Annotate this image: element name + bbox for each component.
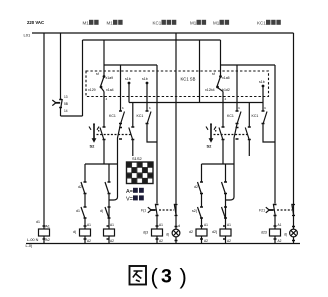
contact S2b ticks [131,127,134,140]
svg-text:4: 4 [106,97,108,101]
selector link dashed left [97,134,133,136]
svg-text:s1b: s1b [259,80,265,84]
terminal box X1 dashed [86,71,269,97]
svg-text:S2: S2 [207,144,213,149]
contact X1 labels [88,72,114,92]
svg-text:s2(: s2( [192,209,198,213]
svg-text:A1: A1 [278,223,282,227]
contact KC2-1 [226,65,241,200]
svg-text:L-00 N: L-00 N [27,238,39,242]
lamp pin ticks [175,227,296,241]
svg-text:A2: A2 [159,239,163,243]
svg-text:5B: 5B [64,102,68,106]
svg-text:KC1: KC1 [109,114,116,118]
svg-text:d1: d1 [76,209,80,213]
svg-text:d2(: d2( [212,230,218,234]
svg-text:d2: d2 [189,230,193,234]
contact KM4-b col224 [222,207,226,219]
svg-text:M1: M1 [190,21,197,26]
pushbutton SB3 NO [148,204,157,216]
wire bottom bus [26,243,300,245]
wire rail A top [32,32,294,34]
svg-text:KC1: KC1 [227,114,234,118]
svg-text:L-0): L-0) [26,244,33,248]
svg-text:220 VAC: 220 VAC [27,20,44,25]
selector S2 left arrow [89,123,99,143]
coil pin ticks [43,226,277,239]
wire coil KM3 to bus [201,236,203,244]
selector S2 right arrow [206,123,217,143]
wire col176 lamp [175,33,177,244]
contact HL2 ticks [292,204,295,216]
svg-text:b1d2: b1d2 [222,88,230,92]
top label M1 stop [83,20,99,26]
svg-text:13: 13 [64,95,68,99]
svg-text:A2: A2 [278,239,282,243]
wire col157 [156,65,158,244]
top label KC2 after [257,20,281,26]
svg-text:4: 4 [225,97,227,101]
contact X1 dots [100,75,106,88]
contact KA1-a col85 [81,182,85,207]
contact X1 in terminal box [101,77,105,128]
coil KM2 [104,229,115,236]
svg-text:F(1: F(1 [141,209,146,213]
contact X2 in terminal box [217,77,223,128]
contact X2 labels [205,72,230,92]
contact KA2-b ticks [200,207,203,218]
svg-text:A2: A2 [87,239,91,243]
svg-text:A1: A1 [227,223,231,227]
contact KM2-a ticks [108,182,111,194]
contact KM4-a ticks [224,182,227,194]
contact KA1-a ticks [84,182,87,194]
lamp HL1 [172,229,180,237]
svg-text:): ) [180,264,187,289]
svg-text:sf: sf [212,72,215,76]
contact KM4-b ticks [224,207,227,218]
svg-text:d: d [178,224,180,228]
link SB3 to lamp dashed [159,209,174,211]
wire col220 upper [220,40,222,76]
wire corner col104 to col85 [85,164,118,182]
coil KC1 [152,229,163,236]
svg-text:x129: x129 [88,88,96,92]
svg-text:sf: sf [96,72,99,76]
top label M1 run [107,20,123,26]
svg-text:b: b [265,106,267,110]
svg-text:d): d) [166,233,169,237]
svg-text:V=: V= [126,197,133,203]
wire col275 [274,65,276,244]
contact S2c ticks [222,127,225,140]
svg-text:A1: A1 [110,223,114,227]
pushbutton SB1 labels [64,95,68,113]
contact S2a ticks [103,127,106,140]
contact KM4-a col224 [222,182,226,194]
wire cross link y102 [129,102,263,104]
wire branch right y65 [221,64,276,66]
pushbutton SB1 NC [52,33,62,116]
contact KA1-b col85 [81,207,85,229]
svg-text:M1: M1 [83,21,90,26]
wire corner col220 to col201 [202,164,235,182]
contact X2 dots [216,75,222,88]
top label M2 run [213,20,229,26]
svg-text:d1: d1 [36,220,40,224]
contact S2d ticks [248,111,265,140]
svg-text:A2: A2 [110,239,114,243]
svg-text:M1: M1 [107,21,114,26]
coil pin labels [87,223,282,243]
svg-text:A1: A1 [159,223,163,227]
svg-text:x1a9: x1a9 [106,76,114,80]
svg-text:A1: A1 [87,223,91,227]
svg-text:d2: d2 [78,185,82,189]
contact KA2-a ticks [200,182,203,194]
contact S2a on col104 [100,128,104,165]
node X1 terminal dot a [128,82,131,85]
contact KM2-b ticks [108,207,111,218]
svg-text:(: ( [151,264,159,289]
svg-text:KC1: KC1 [153,21,162,26]
svg-text:d23: d23 [261,231,267,235]
svg-text:KC1: KC1 [257,21,266,26]
contact KC1-2 ticks [146,111,149,124]
wire dot b down [146,83,148,103]
legend A=auto [126,188,144,195]
wire col224 [225,194,227,244]
coil KM3 [196,229,207,236]
svg-text:b: b [122,106,124,110]
svg-text:L01: L01 [24,33,31,38]
contact KA2-a col201 [198,182,202,207]
svg-text:A2: A2 [204,239,208,243]
svg-text:s1b: s1b [142,77,148,81]
contact KC2-3 on col263 [263,86,275,142]
svg-text:F21: F21 [259,209,265,213]
svg-text:x12b4: x12b4 [205,88,215,92]
wire rail B top [83,39,221,41]
svg-text:KC1 SB: KC1 SB [181,77,196,82]
svg-text:KC1: KC1 [137,114,144,118]
svg-text:A=: A= [126,189,133,195]
pushbutton SB3 ticks [156,205,159,216]
svg-text:x1a4: x1a4 [106,88,114,92]
contact KM2-b col108 [105,207,109,219]
svg-text:A2: A2 [46,238,50,242]
node X1 terminal dot c [262,85,265,88]
svg-text:S1S2: S1S2 [132,156,143,161]
pushbutton SB4 NO [266,204,275,216]
contact S2b on col132 [129,103,133,157]
pushbutton SB1 pin ticks [55,102,60,104]
svg-text:s1b: s1b [125,77,131,81]
caption figure 3 glyph tu [130,266,147,285]
node X1 terminal dot b [146,82,149,85]
svg-text:d): d) [284,233,287,237]
wire col294 lamp [293,33,295,244]
wire SB1 to col 82 [61,115,83,117]
contact KC1-1 ticks [119,111,122,139]
wire col108 [108,194,110,244]
svg-text:d2: d2 [194,185,198,189]
link SB4 to lamp dashed [277,209,292,211]
svg-text:S2: S2 [90,144,96,149]
contact HL1 ticks [174,204,177,216]
wire branch y65 [104,64,157,66]
wire col199 [199,40,201,103]
contact KA1-b ticks [84,207,87,218]
coil KM4 [220,229,231,236]
contact KA2-b col201 [198,207,202,229]
wire coil KM1 to bus [84,236,86,244]
svg-text:A1: A1 [204,223,208,227]
svg-text:M1: M1 [213,21,220,26]
top label M2 stop [190,20,206,26]
contact KC1-1 [110,65,125,200]
svg-text:A2: A2 [227,239,231,243]
contact S2d on col249 [245,103,249,157]
wire column 82 [82,40,84,116]
coil KA1 [39,229,50,236]
wire column KA1 [43,33,45,244]
pin marks at box crossings [106,97,267,110]
svg-text:b: b [149,106,151,110]
svg-text:d): d) [100,209,103,213]
svg-text:d(3: d(3 [143,231,148,235]
contact KC2-1 ticks [236,111,239,139]
node dot labels [125,77,148,81]
wire column 104 upper [103,40,105,76]
contact KC1-2 [147,103,157,143]
coil KM1 [80,229,91,236]
wire dot a down [128,83,130,103]
svg-text:d(: d( [73,230,77,234]
legend V=manual [126,195,144,202]
selector block SB2 grid [127,162,154,184]
svg-text:3: 3 [161,266,172,288]
svg-text:KC1: KC1 [252,114,259,118]
contact KM2-a col108 [105,182,109,194]
coil KC2 [270,229,281,236]
svg-text:A1: A1 [46,225,50,229]
pushbutton SB4 ticks [274,205,277,216]
contact S2c on col220 [219,128,223,165]
lamp HL2 [290,229,298,237]
svg-text:x1a5: x1a5 [222,76,230,80]
top label KC1 after [153,20,177,26]
svg-text:b: b [239,106,241,110]
selector link dashed right [214,134,250,136]
svg-text:14: 14 [64,109,68,113]
coil KA1 labels [36,220,50,242]
